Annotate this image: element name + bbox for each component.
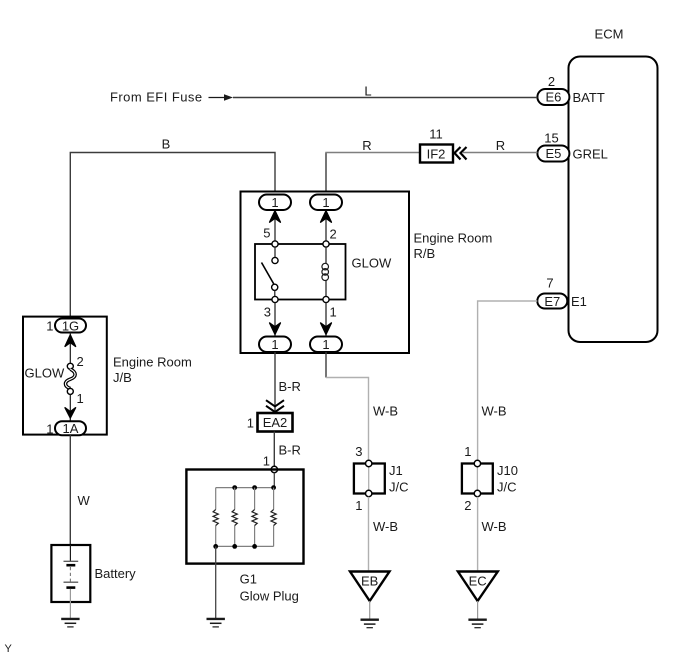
up arrow pin2 (321, 211, 332, 222)
svg-text:1: 1 (330, 305, 337, 320)
pin 3 label (264, 305, 271, 320)
svg-text:1A: 1A (63, 421, 79, 436)
svg-text:1: 1 (271, 195, 278, 210)
ground below glow plug (207, 619, 225, 627)
J1 bottom node (366, 490, 372, 496)
wire W-B : relay pin1 to J1 (326, 352, 369, 459)
wire battery to ground (69, 602, 71, 618)
svg-text:EC: EC (469, 574, 487, 589)
svg-text:7: 7 (546, 276, 553, 291)
ECM block U1 (569, 57, 658, 343)
From EFI Fuse label (110, 90, 203, 105)
wire R : relay to IF2 (325, 153, 420, 195)
glow plug node (271, 466, 277, 472)
junction connector J10 (462, 464, 493, 494)
glow element column wires 2 (234, 488, 236, 547)
svg-text:From EFI Fuse: From EFI Fuse (110, 90, 203, 105)
svg-text:E6: E6 (545, 90, 561, 105)
svg-text:B-R: B-R (279, 379, 301, 394)
glow element column wires 3 (254, 488, 256, 547)
svg-text:GLOW: GLOW (352, 256, 392, 271)
connector 1 bottom-right of relay (310, 337, 342, 353)
wire label W-B upper J10 (482, 404, 507, 419)
svg-text:1: 1 (271, 337, 278, 352)
up arrow below 1G (65, 335, 76, 347)
switch contact lower (272, 284, 278, 290)
wire EC to ground (477, 601, 479, 619)
svg-text:BATT: BATT (573, 90, 605, 105)
svg-text:ECM: ECM (595, 27, 624, 42)
svg-text:1: 1 (464, 444, 471, 459)
svg-text:W-B: W-B (373, 519, 398, 534)
wire label B-R upper (279, 379, 301, 394)
connector E6 (537, 89, 569, 105)
svg-text:E7: E7 (544, 294, 560, 309)
G1 Glow Plug label (240, 572, 299, 604)
chevron splice at IF2 (455, 147, 467, 160)
svg-text:R/B: R/B (414, 246, 436, 261)
glow relay inner box (255, 244, 346, 300)
svg-text:2: 2 (548, 74, 555, 89)
svg-text:1: 1 (247, 416, 254, 431)
pin 1 label of glow plug (263, 454, 270, 469)
pin 1 label of J1 (355, 498, 362, 513)
svg-text:2: 2 (77, 354, 84, 369)
wire L : EFI fuse to E6 (233, 97, 537, 99)
connector 1G (55, 318, 86, 333)
J1 top node (366, 460, 372, 466)
junction dot top 4 (271, 485, 276, 490)
svg-text:E1: E1 (571, 294, 587, 309)
glow element column wires 4 (273, 488, 275, 547)
svg-text:R: R (496, 138, 505, 153)
fuse GLOW lower node (67, 388, 73, 394)
battery plate negative short 1 (66, 564, 75, 567)
connector 1 top-left of relay (259, 195, 291, 211)
wire B-R : relay pin3 to EA2 (274, 352, 276, 413)
pin 1 label of 1G (46, 319, 53, 334)
resistor glow element 4 (271, 510, 276, 526)
battery dashed link (69, 567, 71, 582)
wire node to top bus (273, 473, 275, 488)
svg-text:J/C: J/C (497, 479, 517, 494)
svg-text:GLOW: GLOW (25, 366, 65, 381)
svg-text:1: 1 (322, 195, 329, 210)
svg-text:IF2: IF2 (427, 146, 446, 161)
switch contact upper (272, 257, 278, 263)
svg-text:1: 1 (322, 337, 329, 352)
connector IF2 (420, 145, 453, 163)
pin 11 label (429, 127, 443, 142)
BATT pin name (573, 90, 605, 105)
battery internal lead bottom (69, 589, 71, 602)
arrow from EFI fuse (209, 94, 234, 101)
connector E5 (537, 146, 569, 162)
wire EB to ground (369, 601, 371, 619)
ECM label (595, 27, 624, 42)
junction dot top 2 (232, 485, 237, 490)
svg-text:3: 3 (264, 305, 271, 320)
wire R : IF2 to E5 (463, 152, 537, 154)
glow plug top bus (216, 487, 275, 489)
wire switch to bottom node (274, 290, 276, 296)
relay pin node top-right (323, 241, 329, 247)
wire W : 1A to battery (69, 435, 71, 545)
junction dot top 3 (252, 485, 257, 490)
svg-text:Engine Room: Engine Room (113, 355, 192, 370)
connector 1A (55, 421, 86, 436)
pin 1 label of J10 (464, 444, 471, 459)
svg-text:Y: Y (5, 643, 13, 654)
wire W-B : J1 to EB (368, 497, 370, 571)
wire label W-B lower J1 (373, 519, 398, 534)
wire fuse to 1A (69, 394, 71, 421)
pin 3 label of J1 (355, 444, 362, 459)
junction connector J1 (354, 464, 385, 494)
pin 7 label (546, 276, 553, 291)
battery internal lead top (69, 545, 71, 561)
pin 2 label of relay (330, 227, 337, 242)
J10 J/C label (497, 463, 518, 495)
pin 1 label of 1A (46, 422, 53, 437)
battery plate positive long 2 (64, 581, 79, 583)
pin 1 label of EA2 (247, 416, 254, 431)
pin 1 label of relay (330, 305, 337, 320)
wire glow plug to ground (215, 546, 217, 618)
svg-text:1: 1 (46, 422, 53, 437)
GREL pin name (573, 147, 608, 162)
Battery label (95, 566, 137, 581)
svg-text:W-B: W-B (482, 519, 507, 534)
svg-text:5: 5 (263, 226, 270, 241)
resistor glow element 1 (213, 510, 218, 526)
wire label R right (496, 138, 505, 153)
J1 J/C label (389, 463, 409, 495)
svg-text:R: R (362, 138, 371, 153)
svg-text:J1: J1 (389, 463, 403, 478)
resistor glow element 3 (252, 510, 257, 526)
svg-text:1: 1 (355, 498, 362, 513)
battery plate negative short 2 (66, 586, 75, 589)
Engine Room R/B label (414, 231, 493, 261)
svg-text:B: B (162, 137, 171, 152)
J10 bottom node (474, 490, 480, 496)
Engine Room J/B label (113, 355, 192, 385)
pin 2 label of J10 (464, 498, 471, 513)
down arrow above 1A (65, 408, 76, 418)
wire label B (162, 137, 171, 152)
fuse pin 1 label (77, 391, 84, 406)
fuse GLOW element (65, 369, 75, 389)
glow plug G1 box (186, 470, 303, 564)
relay pin node bottom-left (272, 296, 278, 302)
up arrow pin5 (270, 211, 281, 222)
wire label B-R lower (279, 443, 301, 458)
ground point EC (458, 572, 498, 602)
pin 2 label (548, 74, 555, 89)
connector 1 top-right of relay (310, 195, 342, 211)
svg-text:J/C: J/C (389, 479, 409, 494)
junction dot bottom 1 (213, 544, 218, 549)
wire label W-B upper J1 (373, 404, 398, 419)
J10 top node (474, 460, 480, 466)
svg-text:G1: G1 (240, 572, 257, 587)
svg-text:E5: E5 (545, 146, 561, 161)
battery BT1 box (51, 545, 90, 602)
battery plate positive long 1 (64, 560, 79, 562)
Engine Room R/B block (241, 192, 410, 354)
relay pin node top-left (272, 241, 278, 247)
svg-text:L: L (364, 84, 371, 99)
ground below EC (468, 620, 486, 628)
wire label L (364, 84, 371, 99)
wire label W-B lower J10 (482, 519, 507, 534)
wire label R left (362, 138, 371, 153)
glow element column wires 1 (215, 488, 217, 547)
wire coil bottom stub (325, 281, 327, 297)
svg-text:2: 2 (464, 498, 471, 513)
pin 15 label (544, 131, 558, 146)
wire stub pin5 (274, 210, 276, 244)
corner caption Y (5, 643, 13, 654)
wire stub pin3 (274, 303, 276, 337)
svg-text:W-B: W-B (373, 404, 398, 419)
svg-text:1: 1 (77, 391, 84, 406)
svg-text:3: 3 (355, 444, 362, 459)
ground point EB (350, 572, 390, 602)
svg-text:EB: EB (361, 574, 378, 589)
connector E7 (537, 294, 567, 309)
Engine Room J/B block (23, 317, 107, 435)
wire B : J/B 1G to relay pin (70, 153, 275, 317)
fuse GLOW upper node (67, 363, 73, 369)
wire label W (78, 493, 91, 508)
svg-text:GREL: GREL (573, 147, 608, 162)
pin 5 label (263, 226, 270, 241)
svg-text:J10: J10 (497, 463, 518, 478)
wire coil top stub (325, 247, 327, 264)
junction dot bottom 2 (232, 544, 237, 549)
svg-text:1G: 1G (62, 318, 79, 333)
resistor glow element 2 (232, 510, 237, 526)
connector 1 bottom-left of relay (259, 337, 291, 353)
wire node to switch contact (274, 247, 276, 257)
down arrow pin3 (270, 323, 281, 334)
junction dot bottom 3 (252, 544, 257, 549)
svg-text:2: 2 (330, 227, 337, 242)
svg-text:Battery: Battery (95, 566, 137, 581)
wire 1G to fuse (69, 333, 71, 364)
relay coil (322, 263, 329, 280)
wire B-R : EA2 to glow plug (273, 432, 275, 467)
relay pin node bottom-right (323, 296, 329, 302)
svg-text:B-R: B-R (279, 443, 301, 458)
svg-text:J/B: J/B (113, 370, 132, 385)
switch blade (262, 263, 274, 285)
wire stub pin2 (325, 210, 327, 244)
svg-text:W: W (78, 493, 91, 508)
svg-text:11: 11 (429, 127, 443, 142)
fuse pin 2 label (77, 354, 84, 369)
GLOW fuse name (25, 366, 65, 381)
wire W-B : J10 to EC (477, 497, 479, 571)
down arrow pin1 (321, 323, 332, 334)
svg-text:Glow Plug: Glow Plug (240, 589, 299, 604)
glow plug bottom bus (216, 545, 274, 547)
E1 pin name (571, 294, 587, 309)
svg-text:1: 1 (46, 319, 53, 334)
ground below battery (61, 619, 79, 627)
wire W-B : E7 to J10 (478, 301, 538, 460)
svg-text:15: 15 (544, 131, 558, 146)
svg-text:1: 1 (263, 454, 270, 469)
wire stub pin1 (325, 303, 327, 337)
GLOW relay label (352, 256, 392, 271)
connector EA2 (258, 413, 293, 432)
svg-text:Engine Room: Engine Room (414, 231, 493, 246)
svg-text:W-B: W-B (482, 404, 507, 419)
svg-text:EA2: EA2 (263, 415, 288, 430)
chevron splice above EA2 (266, 400, 284, 412)
ground below EB (361, 620, 379, 628)
